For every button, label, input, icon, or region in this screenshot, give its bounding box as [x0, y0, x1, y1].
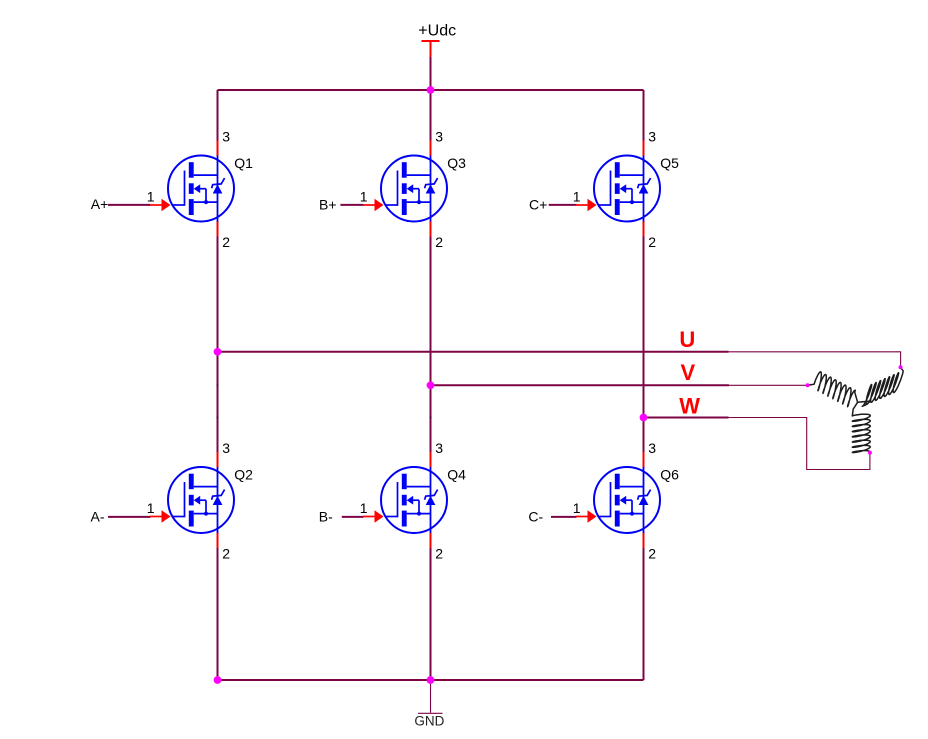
svg-text:W: W: [679, 394, 700, 419]
svg-text:3: 3: [435, 440, 443, 456]
svg-text:3: 3: [222, 440, 230, 456]
svg-text:Q5: Q5: [660, 155, 679, 171]
svg-text:1: 1: [147, 189, 155, 205]
svg-text:B+: B+: [319, 196, 337, 212]
svg-text:V: V: [681, 360, 696, 385]
svg-text:2: 2: [222, 545, 230, 561]
svg-text:3: 3: [435, 128, 443, 144]
svg-text:2: 2: [435, 234, 443, 250]
svg-text:Q6: Q6: [660, 467, 679, 483]
svg-text:1: 1: [360, 500, 368, 516]
svg-text:1: 1: [573, 500, 581, 516]
svg-text:A-: A-: [91, 508, 105, 524]
svg-text:2: 2: [435, 545, 443, 561]
svg-text:Q3: Q3: [447, 155, 466, 171]
svg-text:2: 2: [648, 234, 656, 250]
svg-text:3: 3: [648, 128, 656, 144]
svg-text:U: U: [679, 327, 695, 352]
svg-text:1: 1: [360, 189, 368, 205]
svg-text:3: 3: [222, 128, 230, 144]
svg-text:Q1: Q1: [234, 155, 253, 171]
svg-text:1: 1: [147, 500, 155, 516]
svg-text:2: 2: [648, 545, 656, 561]
svg-text:3: 3: [648, 440, 656, 456]
svg-text:Q2: Q2: [234, 467, 253, 483]
svg-text:+Udc: +Udc: [418, 22, 456, 39]
svg-text:C+: C+: [529, 196, 547, 212]
svg-text:B-: B-: [319, 508, 333, 524]
svg-text:1: 1: [573, 189, 581, 205]
svg-text:A+: A+: [91, 196, 109, 212]
svg-text:Q4: Q4: [447, 467, 466, 483]
svg-text:2: 2: [222, 234, 230, 250]
svg-text:C-: C-: [528, 508, 543, 524]
svg-text:GND: GND: [414, 713, 444, 728]
